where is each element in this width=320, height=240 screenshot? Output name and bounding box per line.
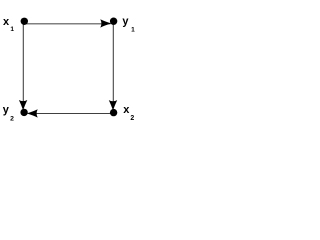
wire y1-x2 right edge xyxy=(112,21,114,107)
wire x2-y2 bottom edge xyxy=(29,113,114,115)
arrowhead into y2 from x2 xyxy=(27,109,38,117)
svg-text:x: x xyxy=(123,104,130,116)
svg-text:y: y xyxy=(3,104,10,116)
node x1 xyxy=(21,18,28,25)
svg-text:1: 1 xyxy=(10,26,14,33)
wire x1-y1 top edge xyxy=(24,23,110,25)
node y2 xyxy=(20,109,27,116)
node y1 xyxy=(110,18,117,25)
arrowhead into y1 xyxy=(100,19,111,27)
svg-text:x: x xyxy=(3,16,10,28)
svg-text:2: 2 xyxy=(10,116,14,123)
wire x1-y2 left edge xyxy=(22,21,24,107)
svg-text:1: 1 xyxy=(131,27,135,34)
svg-text:2: 2 xyxy=(130,115,134,122)
arrowhead into x2 xyxy=(109,100,117,110)
node x2 xyxy=(110,109,117,116)
arrowhead into y2 from x1 xyxy=(19,100,27,110)
svg-text:y: y xyxy=(122,16,129,28)
